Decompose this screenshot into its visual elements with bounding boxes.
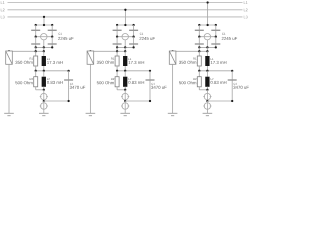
- node: junction: [132, 46, 134, 48]
- node: junction: [43, 89, 45, 91]
- capacitor C upper-right phase B: [129, 29, 138, 31]
- wire: links to RL network phase C: [198, 47, 200, 51]
- node: junction: [206, 50, 208, 52]
- capacitor C lower-right phase A: [48, 43, 57, 45]
- label L1 17.3 mH phase B: [128, 58, 131, 60]
- inductor L1 phase B: [124, 51, 126, 56]
- label C1 3470 uF phase C: [234, 83, 237, 85]
- node: junction: [124, 24, 126, 26]
- capacitor C lower-left phase B: [113, 43, 122, 45]
- label L2 left: [1, 9, 5, 12]
- wire: RL bottom bar phase B: [117, 89, 125, 91]
- wire: left cap branch phase A: [35, 25, 37, 37]
- label R1 350 Ohm phase B: [111, 58, 114, 60]
- node: junction: [43, 46, 45, 48]
- label C1 icon phase C: [222, 33, 225, 35]
- wire: bottom bus of cap bridge phase B: [117, 46, 134, 48]
- wire: phase drop phase B: [124, 10, 126, 25]
- wire: mid bar phase B: [117, 70, 150, 72]
- node: junction: [149, 100, 151, 102]
- wire: right cap branch lower phase C: [215, 37, 217, 48]
- wire: RL bottom bar phase C: [199, 89, 207, 91]
- ground main phase A: [39, 112, 49, 114]
- node: junction: [8, 50, 10, 52]
- node: junction: [206, 70, 208, 72]
- ground main phase B: [120, 112, 130, 114]
- label R2 500 Ohm phase C: [193, 78, 196, 80]
- capacitor C lower-left phase A: [31, 43, 40, 45]
- node: rail tap phase C: [206, 1, 208, 3]
- node: junction: [198, 36, 200, 38]
- node: junction: [198, 46, 200, 48]
- ammeter A1 phase A: [41, 34, 47, 40]
- node: junction: [124, 70, 126, 72]
- varistor R-var phase B: [89, 50, 91, 52]
- ammeter A3 phase B: [124, 101, 126, 103]
- wire: right cap branch phase A: [51, 25, 53, 37]
- varistor R-var phase A: [8, 50, 10, 52]
- capacitor C upper-right phase A: [48, 29, 57, 31]
- wire: H-bridge cross wire phase A: [36, 36, 53, 38]
- label C1 icon phase A: [58, 33, 61, 35]
- label L1 right: [244, 1, 248, 4]
- capacitor C1 branch phase A: [68, 71, 70, 101]
- node: junction: [89, 50, 91, 52]
- label 2245 uF phase C: [222, 37, 237, 40]
- node: junction: [198, 24, 200, 26]
- node: junction: [35, 36, 37, 38]
- wire: varistor to ground phase C: [172, 64, 174, 113]
- label R1 350 Ohm phase C: [193, 58, 196, 60]
- wire: links to RL network phase A: [35, 47, 37, 51]
- resistor R1 phase A: [35, 51, 37, 56]
- ammeter A2 phase C: [206, 90, 208, 94]
- node: junction: [43, 24, 45, 26]
- label 2245 uF phase B: [140, 37, 155, 40]
- capacitor C1 branch phase B: [149, 71, 151, 101]
- node: junction: [149, 70, 151, 72]
- rail L1: [8, 2, 243, 4]
- node: junction: [116, 50, 118, 52]
- capacitor C lower-right phase B: [129, 43, 138, 45]
- wire: left cap branch lower phase C: [198, 37, 200, 48]
- node: junction: [198, 50, 200, 52]
- label L2 right: [244, 9, 248, 12]
- node: junction: [35, 46, 37, 48]
- wire: left cap branch phase C: [198, 25, 200, 37]
- node: junction: [206, 89, 208, 91]
- node: junction: [43, 70, 45, 72]
- node: junction: [171, 50, 173, 52]
- node: junction: [35, 24, 37, 26]
- label L1 17.3 mH phase C: [211, 58, 214, 60]
- inductor L2 phase C: [206, 71, 208, 77]
- wire: left cap branch phase B: [116, 25, 118, 37]
- capacitor C1 branch phase C: [231, 71, 233, 101]
- label C1 3470 uF phase A: [70, 83, 73, 85]
- node: junction: [198, 70, 200, 72]
- ammeter A2 phase A: [43, 90, 45, 94]
- resistor R2 phase C: [198, 71, 200, 77]
- rail L2: [8, 9, 243, 11]
- inductor L2 phase B: [124, 71, 126, 77]
- ground varistor phase C: [168, 112, 178, 114]
- wire: varistor to ground phase B: [89, 64, 91, 113]
- label 2245 uF phase A: [58, 37, 73, 40]
- wire: left cap branch lower phase A: [35, 37, 37, 48]
- label C1 3470 uF phase B: [151, 83, 154, 85]
- label L2 0.83 mH phase B: [128, 78, 131, 80]
- capacitor C lower-right phase C: [211, 43, 220, 45]
- capacitor C upper-left phase B: [113, 29, 122, 31]
- wire: C1 bottom return phase A: [44, 100, 69, 102]
- wire: RL top bar phase C: [173, 50, 208, 52]
- label L2 0.83 mH phase C: [211, 78, 214, 80]
- node: junction: [43, 50, 45, 52]
- wire: links to RL network phase B: [116, 47, 118, 51]
- label R1 350 Ohm phase A: [30, 58, 33, 60]
- wire: top bus bar phase C: [199, 24, 216, 26]
- node: junction: [215, 46, 217, 48]
- wire: top bus bar phase B: [117, 24, 134, 26]
- resistor R2 phase A: [35, 71, 37, 77]
- wire: bottom bus of cap bridge phase C: [199, 46, 216, 48]
- ammeter A3 phase A: [43, 101, 45, 103]
- wire: phase drop phase C: [207, 3, 209, 26]
- wire: mid bar phase C: [199, 70, 232, 72]
- wire: top bus bar phase A: [36, 24, 53, 26]
- ammeter A3 phase C: [206, 101, 208, 103]
- inductor L1 phase A: [43, 51, 45, 56]
- label R2 500 Ohm phase A: [30, 78, 33, 80]
- resistor R1 phase B: [116, 51, 118, 56]
- label L3 left: [1, 16, 5, 19]
- wire: RL bottom bar phase A: [36, 89, 44, 91]
- ground varistor phase B: [86, 112, 96, 114]
- ammeter A2 phase B: [124, 90, 126, 94]
- node: junction: [124, 46, 126, 48]
- node: rail tap phase B: [124, 9, 126, 11]
- label R2 500 Ohm phase B: [111, 78, 114, 80]
- ground varistor phase A: [4, 112, 14, 114]
- wire: C1 bottom return phase B: [125, 100, 150, 102]
- wire: H-bridge cross wire phase B: [117, 36, 134, 38]
- node: junction: [215, 36, 217, 38]
- node: junction: [51, 24, 53, 26]
- node: rail tap phase A: [43, 16, 45, 18]
- wire: ammeter stub phase B: [124, 40, 126, 48]
- node: junction: [124, 89, 126, 91]
- wire: bottom bus of cap bridge phase A: [36, 46, 53, 48]
- label C1 icon phase B: [140, 33, 143, 35]
- node: junction: [116, 24, 118, 26]
- ground main phase C: [203, 112, 213, 114]
- node: junction: [35, 50, 37, 52]
- node: junction: [116, 46, 118, 48]
- node: junction: [51, 46, 53, 48]
- label L1 17.3 mH phase A: [47, 58, 50, 60]
- inductor L2 phase A: [43, 71, 45, 77]
- node: junction: [215, 24, 217, 26]
- capacitor C lower-left phase C: [195, 43, 204, 45]
- label L2 0.83 mH phase A: [47, 78, 50, 80]
- node: junction: [206, 100, 208, 102]
- wire: right cap branch lower phase A: [51, 37, 53, 48]
- wire: ammeter stub phase A: [43, 40, 45, 48]
- wire: C1 bottom return phase C: [207, 100, 232, 102]
- capacitor C upper-right phase C: [211, 29, 220, 31]
- wire: right cap branch lower phase B: [133, 37, 135, 48]
- node: junction: [124, 100, 126, 102]
- ammeter A1 phase C: [204, 34, 210, 40]
- wire: ammeter stub phase C: [206, 40, 208, 48]
- inductor L1 phase C: [206, 51, 208, 56]
- wire: mid bar phase A: [36, 70, 69, 72]
- rail L3: [8, 16, 243, 18]
- node: junction: [43, 100, 45, 102]
- resistor R2 phase B: [116, 71, 118, 77]
- node: junction: [116, 70, 118, 72]
- node: junction: [231, 70, 233, 72]
- node: junction: [132, 36, 134, 38]
- wire: RL top bar phase A: [9, 50, 44, 52]
- wire: RL top bar phase B: [90, 50, 125, 52]
- node: junction: [51, 36, 53, 38]
- node: junction: [206, 24, 208, 26]
- wire: varistor to ground phase A: [8, 64, 10, 113]
- node: junction: [132, 24, 134, 26]
- node: junction: [231, 100, 233, 102]
- label L3 right: [244, 16, 248, 19]
- label L1 left: [1, 1, 5, 4]
- capacitor C upper-left phase A: [31, 29, 40, 31]
- wire: H-bridge cross wire phase C: [199, 36, 216, 38]
- wire: right cap branch phase B: [133, 25, 135, 37]
- resistor R1 phase C: [198, 51, 200, 56]
- node: junction: [124, 50, 126, 52]
- node: junction: [35, 70, 37, 72]
- wire: right cap branch phase C: [215, 25, 217, 37]
- varistor R-var phase C: [172, 50, 174, 52]
- capacitor C upper-left phase C: [195, 29, 204, 31]
- node: junction: [67, 100, 69, 102]
- node: junction: [206, 46, 208, 48]
- node: junction: [67, 70, 69, 72]
- wire: phase drop phase A: [43, 17, 45, 25]
- ammeter A1 phase B: [122, 34, 128, 40]
- node: junction: [116, 36, 118, 38]
- wire: left cap branch lower phase B: [116, 37, 118, 48]
